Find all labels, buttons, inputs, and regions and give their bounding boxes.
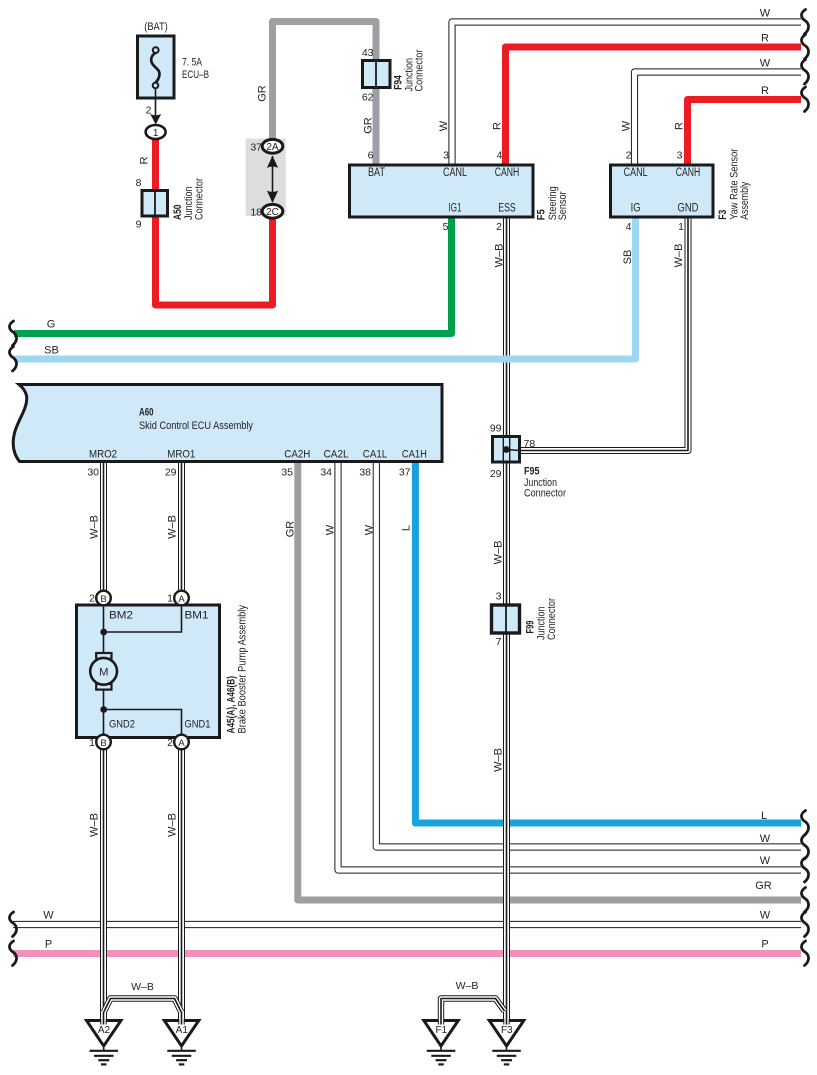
svg-text:2: 2 — [146, 105, 152, 117]
svg-text:5: 5 — [443, 221, 449, 233]
svg-text:CA1H: CA1H — [402, 449, 427, 461]
svg-text:R: R — [674, 122, 686, 130]
svg-text:4: 4 — [497, 150, 503, 162]
svg-text:2: 2 — [496, 221, 502, 233]
svg-text:6: 6 — [368, 150, 374, 162]
svg-text:CA2L: CA2L — [324, 449, 349, 461]
svg-text:W–B: W–B — [494, 244, 506, 268]
svg-text:38: 38 — [359, 467, 371, 479]
svg-text:W–B: W–B — [89, 813, 101, 837]
svg-text:BAT: BAT — [368, 167, 385, 179]
svg-text:GND2: GND2 — [109, 719, 135, 731]
svg-text:A1: A1 — [176, 1025, 189, 1036]
svg-text:W–B: W–B — [456, 980, 479, 992]
svg-text:99: 99 — [490, 423, 502, 435]
svg-text:B: B — [100, 738, 106, 749]
svg-text:R: R — [139, 156, 151, 164]
svg-text:W: W — [621, 120, 633, 131]
svg-text:37: 37 — [250, 142, 262, 154]
svg-text:G: G — [47, 319, 56, 331]
svg-text:4: 4 — [626, 221, 632, 233]
svg-text:W–B: W–B — [167, 515, 179, 539]
svg-text:CANH: CANH — [495, 167, 520, 179]
svg-text:A: A — [178, 594, 185, 605]
svg-text:34: 34 — [320, 467, 332, 479]
svg-text:37: 37 — [399, 467, 411, 479]
svg-text:CA1L: CA1L — [363, 449, 388, 461]
svg-text:1: 1 — [153, 128, 159, 139]
svg-text:W: W — [438, 120, 450, 131]
svg-text:Connector: Connector — [524, 488, 566, 500]
svg-text:L: L — [401, 525, 413, 531]
svg-text:1: 1 — [89, 737, 95, 749]
svg-text:Connector: Connector — [414, 49, 426, 91]
svg-text:MRO2: MRO2 — [89, 449, 117, 461]
svg-text:W–B: W–B — [493, 748, 505, 772]
svg-text:MRO1: MRO1 — [167, 449, 195, 461]
svg-text:9: 9 — [136, 219, 142, 231]
svg-text:Connector: Connector — [194, 178, 206, 220]
svg-text:L: L — [761, 810, 767, 822]
svg-text:GR: GR — [285, 521, 297, 538]
svg-text:Sensor: Sensor — [557, 191, 569, 220]
svg-text:P: P — [761, 939, 768, 951]
svg-text:2: 2 — [167, 737, 173, 749]
svg-text:W–B: W–B — [89, 515, 101, 539]
svg-text:W: W — [760, 833, 771, 845]
svg-text:29: 29 — [490, 468, 502, 480]
svg-text:F1: F1 — [435, 1025, 447, 1036]
svg-text:62: 62 — [362, 92, 374, 104]
svg-text:R: R — [492, 122, 504, 130]
svg-text:18: 18 — [250, 207, 262, 219]
svg-text:W: W — [325, 524, 337, 535]
svg-text:GR: GR — [363, 117, 375, 134]
svg-text:CANL: CANL — [624, 167, 648, 179]
svg-text:F3: F3 — [717, 210, 729, 220]
svg-text:ECU–B: ECU–B — [182, 69, 209, 81]
svg-text:Brake Booster Pump Assembly: Brake Booster Pump Assembly — [237, 605, 249, 734]
svg-text:GND1: GND1 — [185, 719, 211, 731]
svg-text:BM1: BM1 — [185, 610, 209, 622]
svg-text:ESS: ESS — [498, 203, 516, 215]
svg-text:2C: 2C — [266, 207, 279, 218]
svg-text:A2: A2 — [98, 1025, 111, 1036]
svg-text:A60: A60 — [139, 407, 154, 419]
svg-text:P: P — [45, 939, 52, 951]
svg-text:29: 29 — [165, 467, 177, 479]
svg-text:W: W — [43, 910, 54, 922]
svg-text:A: A — [178, 738, 185, 749]
svg-text:W: W — [760, 910, 771, 922]
svg-text:3: 3 — [496, 591, 502, 603]
svg-text:3: 3 — [443, 150, 449, 162]
svg-text:1: 1 — [678, 221, 684, 233]
svg-text:CANH: CANH — [676, 167, 701, 179]
svg-text:IG: IG — [631, 203, 641, 215]
svg-text:SB: SB — [622, 250, 634, 265]
svg-text:3: 3 — [677, 150, 683, 162]
svg-text:30: 30 — [87, 467, 99, 479]
svg-text:43: 43 — [362, 47, 374, 59]
svg-text:IG1: IG1 — [449, 203, 462, 215]
svg-text:Assembly: Assembly — [739, 181, 751, 219]
svg-text:GND: GND — [678, 203, 699, 215]
svg-text:35: 35 — [281, 467, 293, 479]
svg-text:2: 2 — [626, 150, 632, 162]
svg-text:W: W — [760, 855, 771, 867]
svg-text:M: M — [99, 666, 109, 678]
svg-text:2: 2 — [89, 593, 95, 605]
svg-text:1: 1 — [167, 593, 173, 605]
svg-text:W: W — [760, 8, 771, 20]
svg-text:W–B: W–B — [673, 244, 685, 268]
svg-text:CANL: CANL — [443, 167, 467, 179]
svg-text:F95: F95 — [524, 466, 540, 478]
svg-text:R: R — [761, 33, 769, 45]
svg-text:W: W — [760, 58, 771, 70]
svg-text:CA2H: CA2H — [284, 449, 310, 461]
svg-text:78: 78 — [524, 438, 536, 450]
svg-text:W: W — [364, 524, 376, 535]
svg-text:R: R — [761, 85, 769, 97]
svg-text:B: B — [100, 594, 106, 605]
svg-text:8: 8 — [136, 177, 142, 189]
svg-text:BM2: BM2 — [109, 610, 133, 622]
svg-text:W–B: W–B — [493, 541, 505, 565]
svg-text:7. 5A: 7. 5A — [182, 57, 203, 69]
svg-text:Connector: Connector — [546, 598, 558, 640]
svg-text:(BAT): (BAT) — [144, 21, 168, 33]
svg-text:W–B: W–B — [131, 981, 154, 993]
svg-text:2A: 2A — [266, 142, 279, 153]
svg-text:Skid Control ECU Assembly: Skid Control ECU Assembly — [139, 420, 253, 432]
svg-text:GR: GR — [257, 85, 269, 102]
svg-text:SB: SB — [44, 345, 59, 357]
svg-text:W–B: W–B — [167, 813, 179, 837]
svg-text:F3: F3 — [501, 1025, 513, 1036]
svg-text:GR: GR — [755, 880, 772, 892]
svg-text:7: 7 — [496, 636, 502, 648]
svg-text:F5: F5 — [536, 209, 548, 220]
